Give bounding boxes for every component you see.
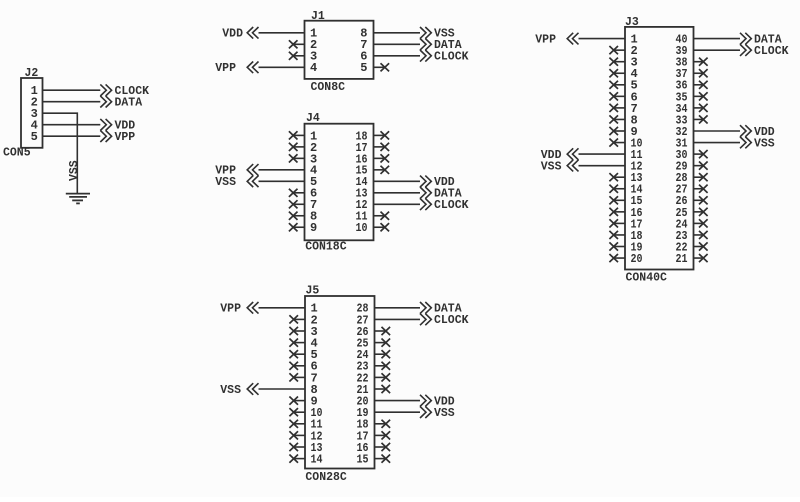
no-connect X J3 pin 14 [614,188,625,190]
port arrow CLOCK (J5 pin 27) [420,314,431,326]
wire J3 pin 1 to port VPP [579,38,626,40]
no-connect X J3 pin 3 [614,61,625,63]
no-connect X J3 pin 24 [694,222,704,224]
wire J2 pin 4 to port VDD [43,124,101,126]
no-connect X J4 pin 17 [374,146,385,148]
wire J4 pin 14 to port VDD [374,180,421,182]
port arrow VPP (J4 pin 4) [247,164,258,176]
svg-text:DATA: DATA [115,97,143,110]
no-connect X J5 pin 4 [294,342,305,344]
no-connect X J3 pin 17 [614,222,625,224]
svg-text:5: 5 [31,130,38,144]
no-connect X J5 pin 21 [375,388,386,390]
no-connect X J3 pin 20 [614,257,625,259]
wire J2 pin 5 to port VPP [43,135,101,137]
no-connect X J5 pin 14 [294,458,305,460]
no-connect X J3 pin 23 [694,234,704,236]
port arrow VPP (J1 pin 4) [247,62,258,74]
no-connect X J3 pin 26 [694,199,704,201]
svg-text:VSS: VSS [220,384,241,397]
wire J2 pin 1 to port CLOCK [43,89,101,91]
no-connect X J3 pin 19 [614,246,625,248]
no-connect X J3 pin 4 [614,72,625,74]
no-connect X J3 pin 10 [614,142,625,144]
svg-text:J1: J1 [311,10,325,23]
port arrow VDD (J1 pin 1) [247,27,258,39]
connector J1 (CON8C) [305,21,374,79]
svg-text:14: 14 [311,453,323,467]
no-connect X J4 pin 15 [374,169,385,171]
ground symbol [66,194,90,204]
wire J4 pin 5 to port VSS [259,180,305,182]
port arrow VPP (J3 pin 1) [567,33,578,45]
connector J5 (CON28C) [305,296,375,469]
wire J5 pin 28 to port DATA [375,307,421,309]
no-connect X J5 pin 26 [375,330,386,332]
no-connect X J3 pin 5 [614,84,625,86]
port arrow VDD (J3 pin 32) [740,125,751,137]
port arrow VSS (J5 pin 19) [420,406,431,418]
no-connect X J3 pin 25 [694,211,704,213]
port arrow VSS (J3 pin 12) [567,160,578,172]
svg-text:4: 4 [310,61,317,75]
no-connect X J5 pin 24 [375,353,386,355]
no-connect X J5 pin 6 [294,365,305,367]
no-connect X J3 pin 38 [694,61,704,63]
port arrow VPP (J5 pin 1) [247,302,258,314]
wire J4 pin 12 to port CLOCK [374,203,421,205]
svg-text:21: 21 [676,252,688,266]
no-connect X J4 pin 16 [374,157,385,159]
svg-text:VSS: VSS [68,160,81,181]
wire J3 pin 31 to port VSS [694,142,741,144]
wire J5 pin 19 to port VSS [375,411,421,413]
no-connect X J5 pin 22 [375,376,386,378]
no-connect X J5 pin 25 [375,342,386,344]
wire J3 pin 40 to port DATA [694,38,741,40]
svg-text:VPP: VPP [535,33,556,46]
wire J3 pin 11 to port VDD [579,153,626,155]
port arrow DATA (J3 pin 40) [740,33,751,45]
port arrow CLOCK (J2 pin 1) [100,84,111,96]
port arrow DATA (J5 pin 28) [420,302,431,314]
no-connect X J3 pin 16 [614,211,625,213]
port arrow DATA (J2 pin 2) [100,96,111,108]
port arrow VPP (J2 pin 5) [100,130,111,142]
no-connect X J5 pin 2 [294,318,305,320]
no-connect X J5 pin 10 [294,411,305,413]
no-connect X J3 pin 15 [614,199,625,201]
no-connect X J5 pin 11 [294,423,305,425]
no-connect X J3 pin 36 [694,84,704,86]
no-connect X J4 pin 18 [374,134,385,136]
no-connect X J5 pin 23 [375,365,386,367]
connector J2 (CON5) [21,78,43,148]
no-connect X J3 pin 7 [614,107,625,109]
svg-text:VPP: VPP [115,131,136,144]
svg-text:VSS: VSS [541,160,562,173]
no-connect X J3 pin 6 [614,95,625,97]
svg-text:VSS: VSS [434,407,455,420]
no-connect X J3 pin 2 [614,49,625,51]
wire J5 pin 1 to port VPP [259,307,306,309]
wire J4 pin 13 to port DATA [374,192,421,194]
wire J2 pin 3 to ground (VSS net) [43,113,78,193]
no-connect X J3 pin 34 [694,107,704,109]
no-connect X J4 pin 7 [293,203,304,205]
no-connect X J4 pin 1 [293,134,304,136]
svg-text:CLOCK: CLOCK [754,45,789,58]
svg-text:VPP: VPP [215,62,236,75]
no-connect X J5 pin 15 [375,458,386,460]
no-connect X J5 pin 13 [294,446,305,448]
no-connect X J5 pin 5 [294,353,305,355]
no-connect X J3 pin 30 [694,153,704,155]
no-connect X J5 pin 3 [294,330,305,332]
no-connect X J3 pin 28 [694,176,704,178]
svg-text:CLOCK: CLOCK [434,199,469,212]
no-connect X J1 pin 3 [293,55,304,57]
svg-text:VPP: VPP [220,303,241,316]
connector J4 (CON18C) [305,124,374,241]
port arrow CLOCK (J1 pin 6) [420,50,431,62]
wire J2 pin 2 to port DATA [43,101,101,103]
port arrow VSS (J3 pin 31) [740,137,751,149]
no-connect X J3 pin 27 [694,188,704,190]
no-connect X J5 pin 12 [294,434,305,436]
no-connect X J5 pin 18 [375,423,386,425]
no-connect X J3 pin 21 [694,257,704,259]
svg-text:5: 5 [360,61,367,75]
svg-text:10: 10 [356,221,368,235]
wire J5 pin 8 to port VSS [259,388,306,390]
port arrow VDD (J3 pin 11) [567,148,578,160]
svg-text:J2: J2 [25,67,39,80]
wire J3 pin 39 to port CLOCK [694,49,741,51]
no-connect X J4 pin 10 [374,226,385,228]
no-connect X J4 pin 11 [374,215,385,217]
no-connect X J4 pin 3 [293,157,304,159]
no-connect X J4 pin 9 [293,226,304,228]
no-connect X J5 pin 7 [294,376,305,378]
no-connect X J3 pin 8 [614,118,625,120]
wire J5 pin 20 to port VDD [375,400,421,402]
no-connect X J3 pin 18 [614,234,625,236]
svg-text:9: 9 [310,221,317,235]
svg-text:CLOCK: CLOCK [434,51,469,64]
svg-text:VSS: VSS [754,137,775,150]
no-connect X J1 pin 2 [293,43,304,45]
no-connect X J4 pin 2 [293,146,304,148]
no-connect X J3 pin 37 [694,72,704,74]
port arrow VDD (J2 pin 4) [100,119,111,131]
no-connect X J5 pin 16 [375,446,386,448]
wire J3 pin 12 to port VSS [579,165,626,167]
wire J1 pin 8 to port VSS [374,32,421,34]
port arrow DATA (J1 pin 7) [420,39,431,51]
port arrow VSS (J4 pin 5) [247,176,258,188]
wire J4 pin 4 to port VPP [259,169,305,171]
svg-text:VDD: VDD [222,28,243,41]
port arrow VSS (J1 pin 8) [420,27,431,39]
svg-text:CON8C: CON8C [311,81,346,94]
no-connect X J5 pin 9 [294,400,305,402]
port arrow DATA (J4 pin 13) [420,187,431,199]
wire J5 pin 27 to port CLOCK [375,318,421,320]
no-connect X J3 pin 22 [694,246,704,248]
no-connect X J3 pin 33 [694,118,704,120]
port arrow CLOCK (J3 pin 39) [740,44,751,56]
wire J1 pin 6 to port CLOCK [374,55,421,57]
svg-text:CON40C: CON40C [626,272,668,285]
wire J1 pin 1 to port VDD [259,32,305,34]
wire J1 pin 4 to port VPP [259,66,305,68]
no-connect X J3 pin 9 [614,130,625,132]
svg-text:J5: J5 [306,285,320,298]
port arrow VDD (J4 pin 14) [420,176,431,188]
svg-text:20: 20 [631,252,643,266]
port arrow VDD (J5 pin 20) [420,395,431,407]
no-connect X J3 pin 29 [694,165,704,167]
svg-text:J4: J4 [306,112,320,125]
svg-text:CLOCK: CLOCK [434,314,469,327]
wire J1 pin 7 to port DATA [374,43,421,45]
svg-text:CON18C: CON18C [305,241,347,254]
svg-text:CON28C: CON28C [305,471,347,484]
port arrow VSS (J5 pin 8) [247,383,258,395]
no-connect X J5 pin 17 [375,434,386,436]
svg-text:CON5: CON5 [3,147,31,160]
no-connect X J4 pin 8 [293,215,304,217]
no-connect X J3 pin 35 [694,95,704,97]
no-connect X J4 pin 6 [293,192,304,194]
no-connect X J1 pin 5 [374,66,385,68]
no-connect X J3 pin 13 [614,176,625,178]
svg-text:15: 15 [357,453,369,467]
port arrow CLOCK (J4 pin 12) [420,198,431,210]
svg-text:J3: J3 [625,16,639,29]
wire J3 pin 32 to port VDD [694,130,741,132]
connector J3 (CON40C) [625,27,694,270]
svg-text:VSS: VSS [215,176,236,189]
